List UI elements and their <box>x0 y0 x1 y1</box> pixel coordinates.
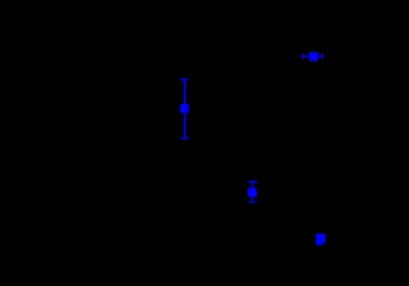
wire from R3 bottom terminal <box>252 203 254 214</box>
wire from R2 bottom terminal <box>184 139 186 150</box>
wire from node A to R1 left terminal <box>280 55 302 57</box>
wire from Q1 <box>326 238 341 240</box>
wire into R2 top terminal <box>184 70 186 79</box>
resistor R2 (selected, highlighted blue, vertical) <box>180 79 189 140</box>
transistor Q1 (selected, highlighted blue) <box>316 234 326 246</box>
ground <box>315 246 326 258</box>
wire crossing over Q1 (black, occludes bottom-right, leaves navy smudge) <box>321 243 326 246</box>
wire crossing over R3 box (black, occludes small bite in right edge) <box>255 189 257 193</box>
resistor R3 (selected, highlighted blue, vertical) <box>248 181 257 203</box>
wire from R1 right terminal <box>323 55 345 57</box>
resistor R1 (selected, highlighted blue, horizontal) <box>302 52 323 61</box>
wire into R3 top terminal <box>252 172 254 181</box>
